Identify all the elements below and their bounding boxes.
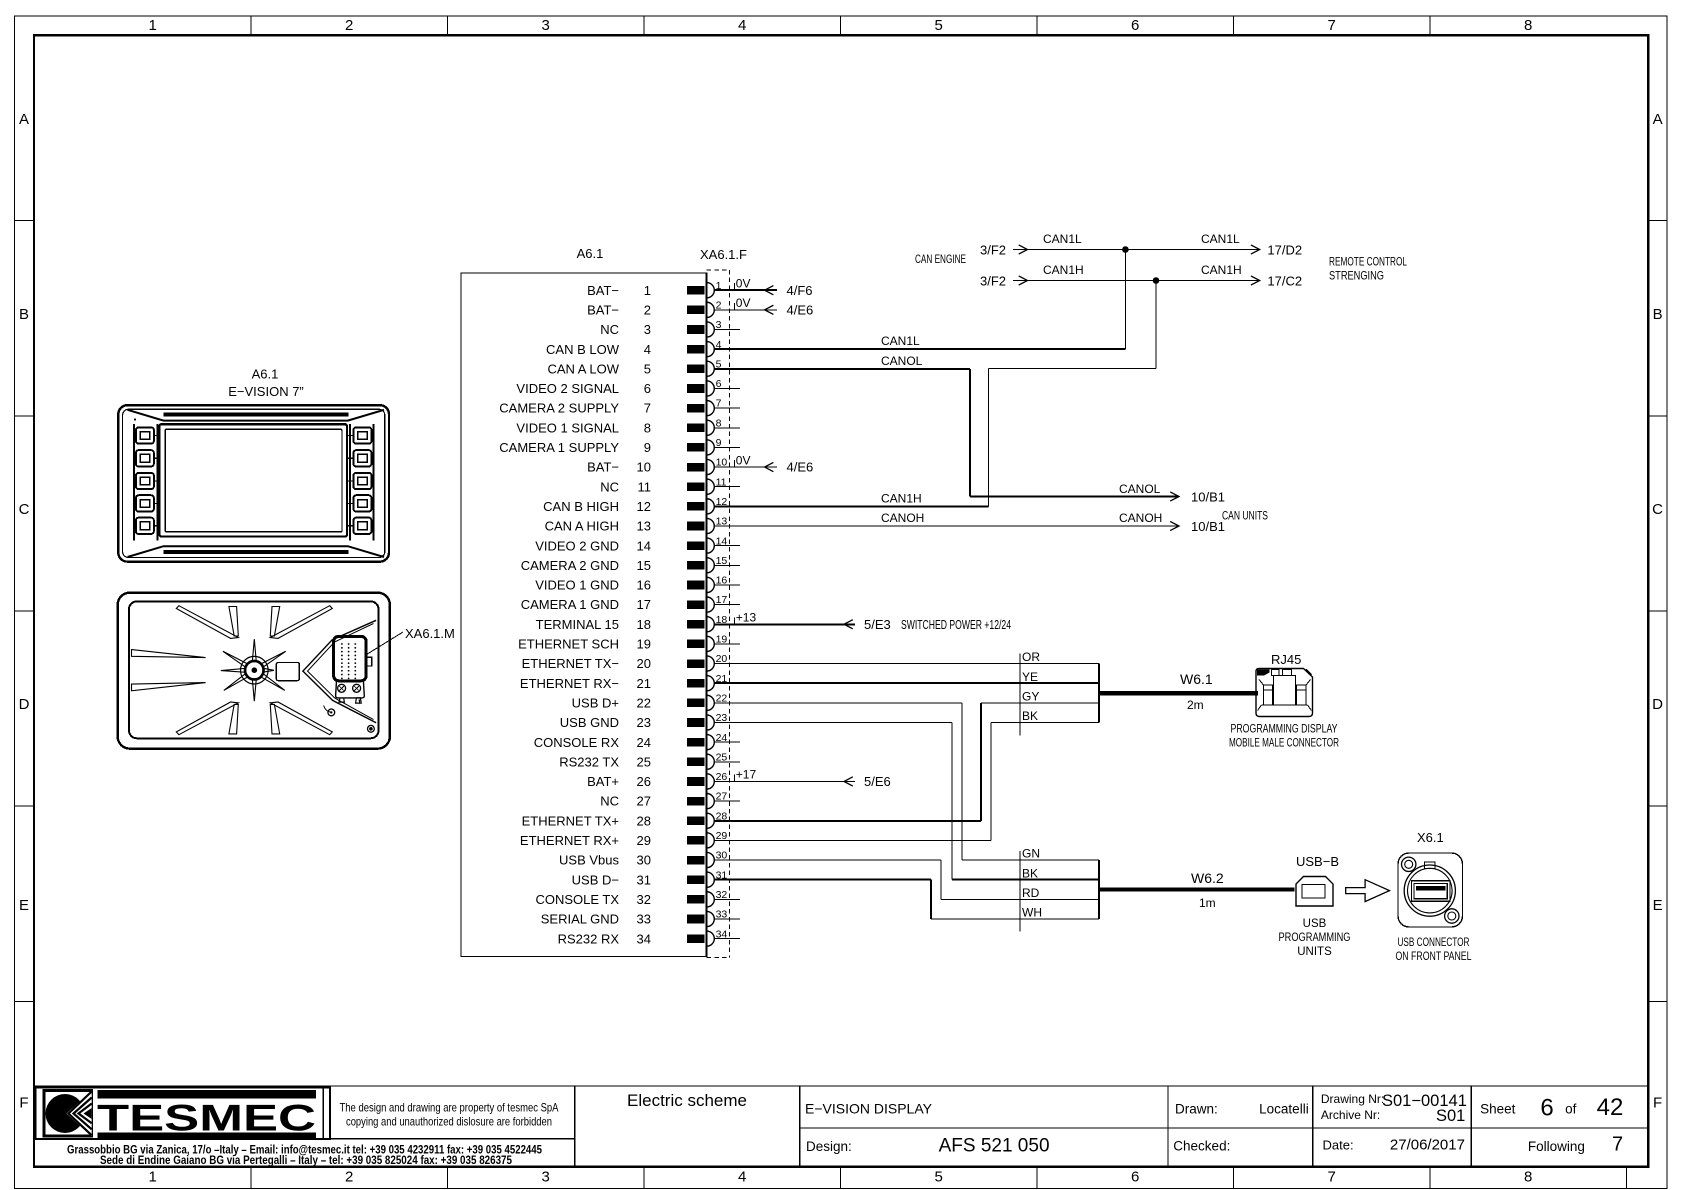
svg-text:Drawn:: Drawn:: [1175, 1102, 1218, 1117]
svg-text:CAN1H: CAN1H: [1043, 263, 1084, 277]
connector XA6.1.M: [324, 636, 375, 732]
svg-text:CAN B HIGH: CAN B HIGH: [543, 499, 619, 514]
svg-text:NC: NC: [600, 794, 619, 809]
svg-text:6: 6: [644, 381, 651, 396]
svg-text:OR: OR: [1022, 650, 1040, 664]
svg-text:BK: BK: [1022, 866, 1038, 880]
pin 32 CONSOLE TX: [535, 889, 740, 907]
svg-text:23: 23: [637, 715, 651, 730]
svg-text:YE: YE: [1022, 670, 1038, 684]
svg-text:5: 5: [644, 361, 651, 376]
svg-text:4/E6: 4/E6: [787, 302, 814, 317]
svg-text:11: 11: [716, 476, 727, 488]
svg-text:10: 10: [637, 460, 651, 475]
svg-text:3: 3: [716, 319, 722, 331]
svg-text:31: 31: [637, 872, 651, 887]
svg-text:33: 33: [716, 909, 728, 921]
svg-text:USB−B: USB−B: [1296, 854, 1339, 869]
svg-text:18: 18: [637, 617, 651, 632]
connector RJ45: [1256, 652, 1313, 717]
block arrow: [1346, 880, 1390, 902]
svg-text:0V: 0V: [736, 296, 751, 310]
svg-text:Sheet: Sheet: [1480, 1102, 1516, 1117]
svg-text:A6.1: A6.1: [252, 366, 279, 381]
pin 3 NC: [600, 319, 740, 337]
pin 1 BAT-: [587, 280, 740, 298]
svg-text:7: 7: [1612, 1134, 1623, 1156]
svg-text:14: 14: [637, 538, 651, 553]
svg-text:CAMERA 2 GND: CAMERA 2 GND: [521, 558, 619, 573]
svg-text:5/E3: 5/E3: [864, 617, 891, 632]
svg-text:4: 4: [644, 342, 651, 357]
svg-text:30: 30: [637, 853, 651, 868]
svg-text:2m: 2m: [1187, 698, 1204, 712]
svg-text:Following: Following: [1528, 1139, 1585, 1154]
svg-text:7: 7: [716, 398, 722, 410]
svg-text:3: 3: [644, 322, 651, 337]
pin 8 VIDEO 1 SIGNAL: [516, 417, 740, 435]
svg-text:CAN1H: CAN1H: [1201, 263, 1242, 277]
wire pin28 ETHERNET TX+ (GY): [714, 703, 1099, 821]
svg-text:2: 2: [345, 1169, 353, 1186]
pin 10 BAT-: [587, 457, 740, 475]
svg-text:ETHERNET SCH: ETHERNET SCH: [518, 637, 619, 652]
svg-text:B: B: [1653, 306, 1663, 323]
pin 24 CONSOLE RX: [534, 732, 740, 750]
svg-text:42: 42: [1597, 1094, 1624, 1121]
svg-text:9: 9: [644, 440, 651, 455]
pin 25 RS232 TX: [559, 751, 740, 769]
svg-text:BAT−: BAT−: [587, 283, 619, 298]
svg-text:CAN UNITS: CAN UNITS: [1222, 509, 1268, 523]
svg-text:REMOTE CONTROL: REMOTE CONTROL: [1329, 255, 1407, 269]
svg-text:1: 1: [644, 283, 651, 298]
connector XA6.1.F (dashed): [700, 247, 747, 958]
svg-text:CAN ENGINE: CAN ENGINE: [915, 252, 966, 266]
svg-text:33: 33: [637, 912, 651, 927]
pin 29 ETHERNET RX+: [520, 830, 740, 848]
svg-text:Archive Nr:: Archive Nr:: [1321, 1108, 1380, 1122]
junction CAN1H: [1153, 277, 1160, 284]
svg-text:7: 7: [1328, 1169, 1336, 1186]
svg-text:25: 25: [637, 754, 651, 769]
svg-text:3: 3: [542, 17, 550, 34]
net CAN1L cross line 3/F2 to 17/D2: [915, 232, 1407, 283]
pin 34 RS232 RX: [558, 928, 740, 946]
connector X6.1 USB on front panel: [1398, 830, 1463, 927]
svg-text:C: C: [1652, 501, 1663, 518]
svg-text:CAN1L: CAN1L: [1043, 232, 1082, 246]
svg-text:Drawing Nr:: Drawing Nr:: [1321, 1092, 1384, 1106]
svg-text:RS232 TX: RS232 TX: [559, 754, 619, 769]
wire pin5 CANOL to 10/B1: [714, 354, 1225, 505]
wire pin20 ETHERNET TX- (OR): [714, 663, 1099, 665]
svg-text:VIDEO 2 SIGNAL: VIDEO 2 SIGNAL: [516, 381, 619, 396]
pin 11 NC: [600, 476, 740, 494]
svg-text:E−VISION DISPLAY: E−VISION DISPLAY: [805, 1101, 933, 1117]
svg-text:34: 34: [716, 928, 728, 940]
wire pin18 +13 to 5/E3: [714, 610, 1011, 631]
pin 22 USB D+: [572, 692, 740, 710]
svg-text:C: C: [19, 501, 30, 518]
svg-text:W6.2: W6.2: [1191, 870, 1224, 886]
svg-text:D: D: [1652, 696, 1663, 713]
wire pin21 ETHERNET RX- (YE): [714, 682, 1099, 684]
pin 2 BAT-: [587, 299, 740, 317]
svg-text:7: 7: [644, 401, 651, 416]
pin 27 NC: [600, 791, 740, 809]
svg-text:BAT−: BAT−: [587, 460, 619, 475]
svg-text:4/E6: 4/E6: [787, 460, 814, 475]
svg-text:A: A: [1653, 111, 1663, 128]
pin 26 BAT+: [587, 771, 740, 789]
svg-text:CANOH: CANOH: [881, 511, 924, 525]
svg-text:CANOL: CANOL: [881, 354, 923, 368]
pin 21 ETHERNET RX-: [520, 673, 740, 691]
svg-text:3/F2: 3/F2: [980, 243, 1006, 258]
svg-text:F: F: [1653, 1095, 1662, 1112]
svg-text:Sede di Endine Gaiano BG via P: Sede di Endine Gaiano BG via Pertegalli …: [100, 1153, 512, 1167]
svg-text:8: 8: [716, 417, 722, 429]
svg-text:34: 34: [637, 931, 651, 946]
svg-text:CAN B LOW: CAN B LOW: [546, 342, 620, 357]
svg-text:15: 15: [716, 555, 728, 567]
wire pin29 ETHERNET RX+ (BK): [714, 723, 1099, 841]
svg-text:16: 16: [716, 575, 728, 587]
svg-text:CAN1L: CAN1L: [1201, 232, 1240, 246]
svg-text:GY: GY: [1022, 690, 1039, 704]
svg-text:27/06/2017: 27/06/2017: [1390, 1137, 1465, 1154]
wire pin13 CANOH to 10/B1: [714, 511, 1225, 534]
svg-text:4: 4: [738, 17, 746, 34]
svg-text:32: 32: [716, 889, 728, 901]
svg-text:VIDEO 1 GND: VIDEO 1 GND: [535, 578, 619, 593]
svg-text:6: 6: [1131, 17, 1139, 34]
pin 16 VIDEO 1 GND: [535, 575, 740, 593]
svg-text:6: 6: [716, 378, 722, 390]
svg-text:GN: GN: [1022, 847, 1040, 861]
svg-text:3: 3: [542, 1169, 550, 1186]
svg-text:X6.1: X6.1: [1417, 830, 1444, 845]
svg-text:copying and unauthorized dislo: copying and unauthorized dislosure are f…: [346, 1115, 552, 1129]
svg-text:17: 17: [716, 594, 728, 606]
wire pin4 CAN1L: [714, 250, 1125, 350]
svg-text:TERMINAL 15: TERMINAL 15: [536, 617, 619, 632]
pin 14 VIDEO 2 GND: [535, 535, 740, 553]
cable W6.2 bundle GN/BK/RD/WH: [1020, 847, 1295, 932]
svg-text:1: 1: [149, 17, 157, 34]
svg-text:The design and drawing are pro: The design and drawing are property of t…: [340, 1101, 559, 1115]
wire pin23 USB GND (BK): [714, 723, 1099, 880]
svg-text:BK: BK: [1022, 709, 1038, 723]
svg-text:XA6.1.F: XA6.1.F: [700, 247, 747, 262]
svg-text:Checked:: Checked:: [1173, 1139, 1230, 1154]
svg-text:5: 5: [935, 1169, 943, 1186]
pin 31 USB D-: [572, 869, 740, 887]
svg-text:4: 4: [738, 1169, 746, 1186]
label USB CONNECTOR ON FRONT PANEL: [1396, 937, 1472, 963]
svg-text:VIDEO 2 GND: VIDEO 2 GND: [535, 538, 619, 553]
svg-text:MOBILE MALE CONNECTOR: MOBILE MALE CONNECTOR: [1229, 738, 1339, 750]
svg-text:+13: +13: [736, 610, 757, 624]
wire pin31 USB D- (WH): [714, 880, 1099, 919]
svg-text:CAMERA 1 SUPPLY: CAMERA 1 SUPPLY: [499, 440, 619, 455]
svg-text:USB GND: USB GND: [560, 715, 619, 730]
svg-text:CAMERA 2 SUPPLY: CAMERA 2 SUPPLY: [499, 401, 619, 416]
wire pin30 USB Vbus (RD): [714, 860, 1099, 899]
display A6.1 E-VISION 7" front view: [118, 366, 389, 561]
svg-text:W6.1: W6.1: [1180, 671, 1213, 687]
svg-text:16: 16: [637, 578, 651, 593]
svg-text:5: 5: [935, 17, 943, 34]
label CAN UNITS: [1222, 509, 1268, 523]
svg-text:Date:: Date:: [1323, 1138, 1354, 1153]
svg-text:7: 7: [1328, 17, 1336, 34]
svg-text:22: 22: [637, 695, 651, 710]
svg-text:10/B1: 10/B1: [1191, 490, 1225, 505]
svg-text:SWITCHED POWER +12/24: SWITCHED POWER +12/24: [901, 617, 1011, 632]
svg-text:10/B1: 10/B1: [1191, 519, 1225, 534]
svg-text:ETHERNET RX−: ETHERNET RX−: [520, 676, 619, 691]
svg-text:ETHERNET TX+: ETHERNET TX+: [522, 813, 619, 828]
cable W6.1 bundle OR/YE/GY/BK: [1020, 650, 1258, 735]
svg-text:14: 14: [716, 535, 728, 547]
wire pin22 USB D+ (GN): [714, 703, 1099, 860]
svg-text:E: E: [1653, 897, 1663, 914]
svg-text:CANOL: CANOL: [1119, 482, 1161, 496]
svg-text:F: F: [19, 1095, 28, 1112]
svg-text:CAN1H: CAN1H: [881, 491, 922, 505]
svg-text:25: 25: [716, 751, 728, 763]
svg-text:27: 27: [637, 794, 651, 809]
svg-text:32: 32: [637, 892, 651, 907]
pin 4 CAN B LOW: [546, 339, 740, 357]
svg-text:ETHERNET RX+: ETHERNET RX+: [520, 833, 619, 848]
svg-text:6: 6: [1131, 1169, 1139, 1186]
svg-text:9: 9: [716, 437, 722, 449]
svg-text:19: 19: [637, 637, 651, 652]
svg-text:USB D−: USB D−: [572, 872, 619, 887]
svg-text:BAT+: BAT+: [587, 774, 619, 789]
svg-text:UNITS: UNITS: [1297, 946, 1332, 958]
svg-text:29: 29: [637, 833, 651, 848]
svg-text:TESMEC: TESMEC: [97, 1098, 316, 1139]
pin 5 CAN A LOW: [547, 358, 740, 376]
net CAN1H cross line 3/F2 to 17/C2: [980, 263, 1302, 289]
svg-text:A6.1: A6.1: [577, 246, 604, 261]
svg-text:21: 21: [637, 676, 651, 691]
svg-text:S01: S01: [1436, 1107, 1465, 1125]
svg-text:8: 8: [1524, 17, 1532, 34]
pin 28 ETHERNET TX+: [522, 810, 740, 828]
svg-text:SERIAL GND: SERIAL GND: [541, 912, 619, 927]
pin 20 ETHERNET TX-: [522, 653, 740, 671]
svg-text:USB Vbus: USB Vbus: [559, 853, 619, 868]
wire pin26 +17 to 5/E6: [714, 768, 890, 789]
svg-text:VIDEO 1 SIGNAL: VIDEO 1 SIGNAL: [516, 420, 619, 435]
wire pin10 0V to 4/E6: [714, 453, 813, 474]
svg-text:17/D2: 17/D2: [1267, 243, 1302, 258]
svg-text:CAN A LOW: CAN A LOW: [547, 361, 619, 376]
svg-text:STRENGING: STRENGING: [1329, 269, 1384, 283]
svg-text:USB CONNECTOR: USB CONNECTOR: [1398, 937, 1470, 949]
svg-text:28: 28: [637, 813, 651, 828]
label XA6.1.M: [367, 626, 455, 655]
svg-text:RS232 RX: RS232 RX: [558, 931, 620, 946]
svg-text:11: 11: [638, 479, 652, 494]
svg-text:D: D: [19, 696, 30, 713]
svg-text:XA6.1.M: XA6.1.M: [405, 626, 455, 641]
svg-text:1: 1: [149, 1169, 157, 1186]
svg-text:6: 6: [1540, 1095, 1553, 1122]
pin 23 USB GND: [560, 712, 740, 730]
pin 7 CAMERA 2 SUPPLY: [499, 398, 740, 416]
pin 30 USB Vbus: [559, 850, 740, 868]
wire pin2 0V to 4/E6: [714, 296, 813, 317]
svg-text:2: 2: [644, 302, 651, 317]
label USB PROGRAMMING UNITS: [1279, 918, 1351, 958]
svg-text:1m: 1m: [1199, 896, 1216, 910]
svg-text:12: 12: [637, 499, 651, 514]
svg-text:8: 8: [1524, 1169, 1532, 1186]
svg-text:CAN A HIGH: CAN A HIGH: [545, 519, 619, 534]
svg-text:CAN1L: CAN1L: [881, 334, 920, 348]
svg-text:8: 8: [644, 420, 651, 435]
svg-text:0V: 0V: [736, 276, 751, 290]
pin 17 CAMERA 1 GND: [521, 594, 740, 612]
svg-text:NC: NC: [600, 479, 619, 494]
pin 12 CAN B HIGH: [543, 496, 740, 514]
svg-text:3/F2: 3/F2: [980, 274, 1006, 289]
svg-text:17/C2: 17/C2: [1267, 274, 1302, 289]
svg-text:NC: NC: [600, 322, 619, 337]
svg-text:of: of: [1565, 1102, 1577, 1117]
svg-text:Design:: Design:: [806, 1139, 852, 1154]
connector USB-B plug: [1296, 854, 1339, 906]
svg-text:USB: USB: [1303, 918, 1327, 930]
svg-text:CAMERA 1 GND: CAMERA 1 GND: [521, 597, 619, 612]
svg-text:Locatelli: Locatelli: [1259, 1102, 1309, 1117]
svg-text:CONSOLE TX: CONSOLE TX: [535, 892, 619, 907]
svg-text:24: 24: [637, 735, 651, 750]
svg-text:26: 26: [637, 774, 651, 789]
svg-text:ETHERNET TX−: ETHERNET TX−: [522, 656, 619, 671]
pin 15 CAMERA 2 GND: [521, 555, 740, 573]
svg-text:Electric scheme: Electric scheme: [627, 1091, 747, 1110]
svg-text:27: 27: [716, 791, 728, 803]
svg-text:A: A: [19, 111, 29, 128]
svg-text:ON FRONT PANEL: ON FRONT PANEL: [1396, 951, 1472, 963]
svg-text:CONSOLE RX: CONSOLE RX: [534, 735, 620, 750]
svg-text:+17: +17: [736, 768, 757, 782]
junction CAN1L: [1122, 246, 1129, 253]
label PROGRAMMING DISPLAY MOBILE MALE CONNECTOR: [1229, 724, 1339, 750]
pin 19 ETHERNET SCH: [518, 634, 740, 652]
svg-text:CANOH: CANOH: [1119, 511, 1162, 525]
svg-text:USB D+: USB D+: [572, 695, 619, 710]
svg-text:E: E: [19, 897, 29, 914]
svg-text:24: 24: [716, 732, 728, 744]
svg-text:E−VISION 7”: E−VISION 7”: [228, 384, 304, 399]
svg-text:PROGRAMMING DISPLAY: PROGRAMMING DISPLAY: [1231, 724, 1338, 736]
svg-text:2: 2: [345, 17, 353, 34]
svg-text:15: 15: [637, 558, 651, 573]
svg-text:19: 19: [716, 634, 728, 646]
svg-text:B: B: [19, 306, 29, 323]
svg-text:0V: 0V: [736, 453, 751, 467]
svg-text:RD: RD: [1022, 886, 1040, 900]
svg-text:WH: WH: [1022, 906, 1042, 920]
pin 9 CAMERA 1 SUPPLY: [499, 437, 740, 455]
pin 6 VIDEO 2 SIGNAL: [516, 378, 740, 396]
device block A6.1: [461, 246, 707, 957]
svg-text:20: 20: [637, 656, 651, 671]
pin 18 TERMINAL 15: [536, 614, 740, 632]
svg-text:BAT−: BAT−: [587, 302, 619, 317]
svg-text:4/F6: 4/F6: [787, 283, 813, 298]
wire pin1 0V to 4/F6: [714, 276, 812, 297]
display A6.1 back view: [118, 593, 390, 749]
pin 13 CAN A HIGH: [545, 516, 740, 534]
pin 33 SERIAL GND: [541, 909, 740, 927]
svg-text:RJ45: RJ45: [1271, 652, 1301, 667]
wire pin12 CAN1H: [714, 281, 1156, 507]
svg-text:5/E6: 5/E6: [864, 774, 891, 789]
svg-text:17: 17: [637, 597, 651, 612]
svg-text:13: 13: [637, 519, 651, 534]
svg-text:PROGRAMMING: PROGRAMMING: [1279, 932, 1351, 944]
svg-text:AFS 521 050: AFS 521 050: [939, 1136, 1050, 1157]
